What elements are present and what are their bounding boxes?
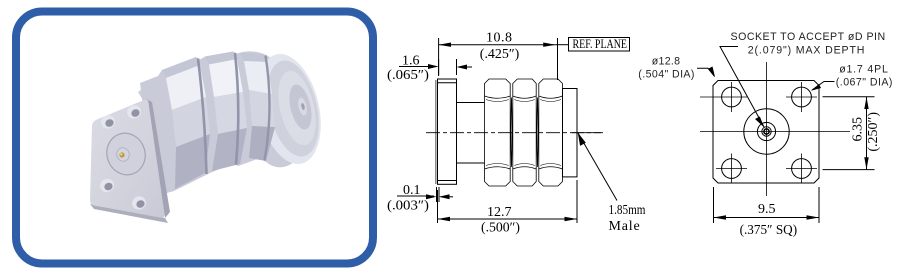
- 3D connector render: [90, 48, 331, 223]
- svg-text:ø12.8: ø12.8: [652, 56, 682, 68]
- dia12.8 leader: [697, 68, 715, 76]
- nut mid facets: [172, 97, 210, 147]
- dim 6.35: [823, 96, 875, 98]
- REF plane connector: [556, 44, 569, 46]
- svg-text:(.500″): (.500″): [481, 221, 520, 236]
- 1.85 leader: [578, 133, 617, 201]
- right texts: [638, 31, 894, 89]
- svg-text:(.425″): (.425″): [480, 47, 520, 62]
- flange center recess: [101, 128, 150, 180]
- svg-text:(.065″): (.065″): [387, 68, 429, 83]
- flange rect: [438, 79, 457, 184]
- nut3: [539, 79, 563, 186]
- nut1: [485, 79, 511, 186]
- svg-text:(.375″ SQ): (.375″ SQ): [740, 223, 798, 238]
- dim 10.8: extension lines: [438, 38, 440, 76]
- dim 0.1: [397, 195, 434, 197]
- flange holes (bright ring + dark center): [98, 103, 148, 212]
- neck: [457, 102, 485, 104]
- socket leader: [720, 47, 764, 128]
- svg-text:9.5: 9.5: [758, 202, 776, 217]
- center circles: [744, 109, 789, 154]
- right cylinder: [563, 89, 578, 177]
- svg-text:REF. PLANE: REF. PLANE: [573, 37, 628, 51]
- corner holes: [722, 87, 742, 107]
- svg-text:0.1: 0.1: [403, 183, 421, 198]
- svg-text:ø1.7 4PL: ø1.7 4PL: [839, 64, 889, 76]
- svg-text:10.8: 10.8: [486, 31, 513, 46]
- nut top strips: [162, 57, 200, 78]
- dim 9.5: [713, 187, 715, 223]
- hex body nuts: [485, 79, 563, 186]
- neck cylinder: [138, 74, 182, 120]
- blue rounded border box: [16, 12, 373, 264]
- gold pin: [119, 152, 124, 157]
- dim 12.7: [437, 190, 439, 223]
- svg-text:(.003″): (.003″): [387, 199, 429, 214]
- flange side faces: [90, 204, 168, 223]
- middle texts (serif): [387, 31, 646, 236]
- flange square: [713, 81, 819, 184]
- svg-text:Male: Male: [609, 219, 641, 234]
- flange front face: [90, 100, 165, 218]
- svg-text:SOCKET TO ACCEPT øD PIN: SOCKET TO ACCEPT øD PIN: [731, 31, 887, 43]
- end cap: [247, 48, 331, 171]
- hex body silhouette base: [140, 51, 316, 196]
- svg-text:(.067" DIA): (.067" DIA): [836, 77, 894, 89]
- svg-text:(.250″): (.250″): [866, 112, 881, 152]
- arrows right: [709, 67, 869, 220]
- centerline: [426, 132, 603, 134]
- dim 1.6: [399, 66, 436, 68]
- svg-text:(.504" DIA): (.504" DIA): [638, 69, 696, 81]
- hole crosshairs: [700, 82, 817, 184]
- svg-text:6.35: 6.35: [851, 117, 866, 142]
- dia1.7 leader: [812, 82, 835, 91]
- svg-text:1.6: 1.6: [402, 54, 420, 69]
- grooves between nuts: [198, 59, 207, 175]
- nut2: [513, 79, 536, 186]
- lens gaps: [511, 98, 512, 168]
- svg-text:2(.079") MAX DEPTH: 2(.079") MAX DEPTH: [748, 45, 866, 57]
- svg-text:1.85mm: 1.85mm: [609, 203, 646, 218]
- nut bright facets: [166, 65, 206, 110]
- center crosshair: [766, 62, 768, 196]
- nut dark facets: [175, 134, 210, 189]
- svg-text:12.7: 12.7: [487, 205, 512, 220]
- arrows middle: [426, 43, 586, 222]
